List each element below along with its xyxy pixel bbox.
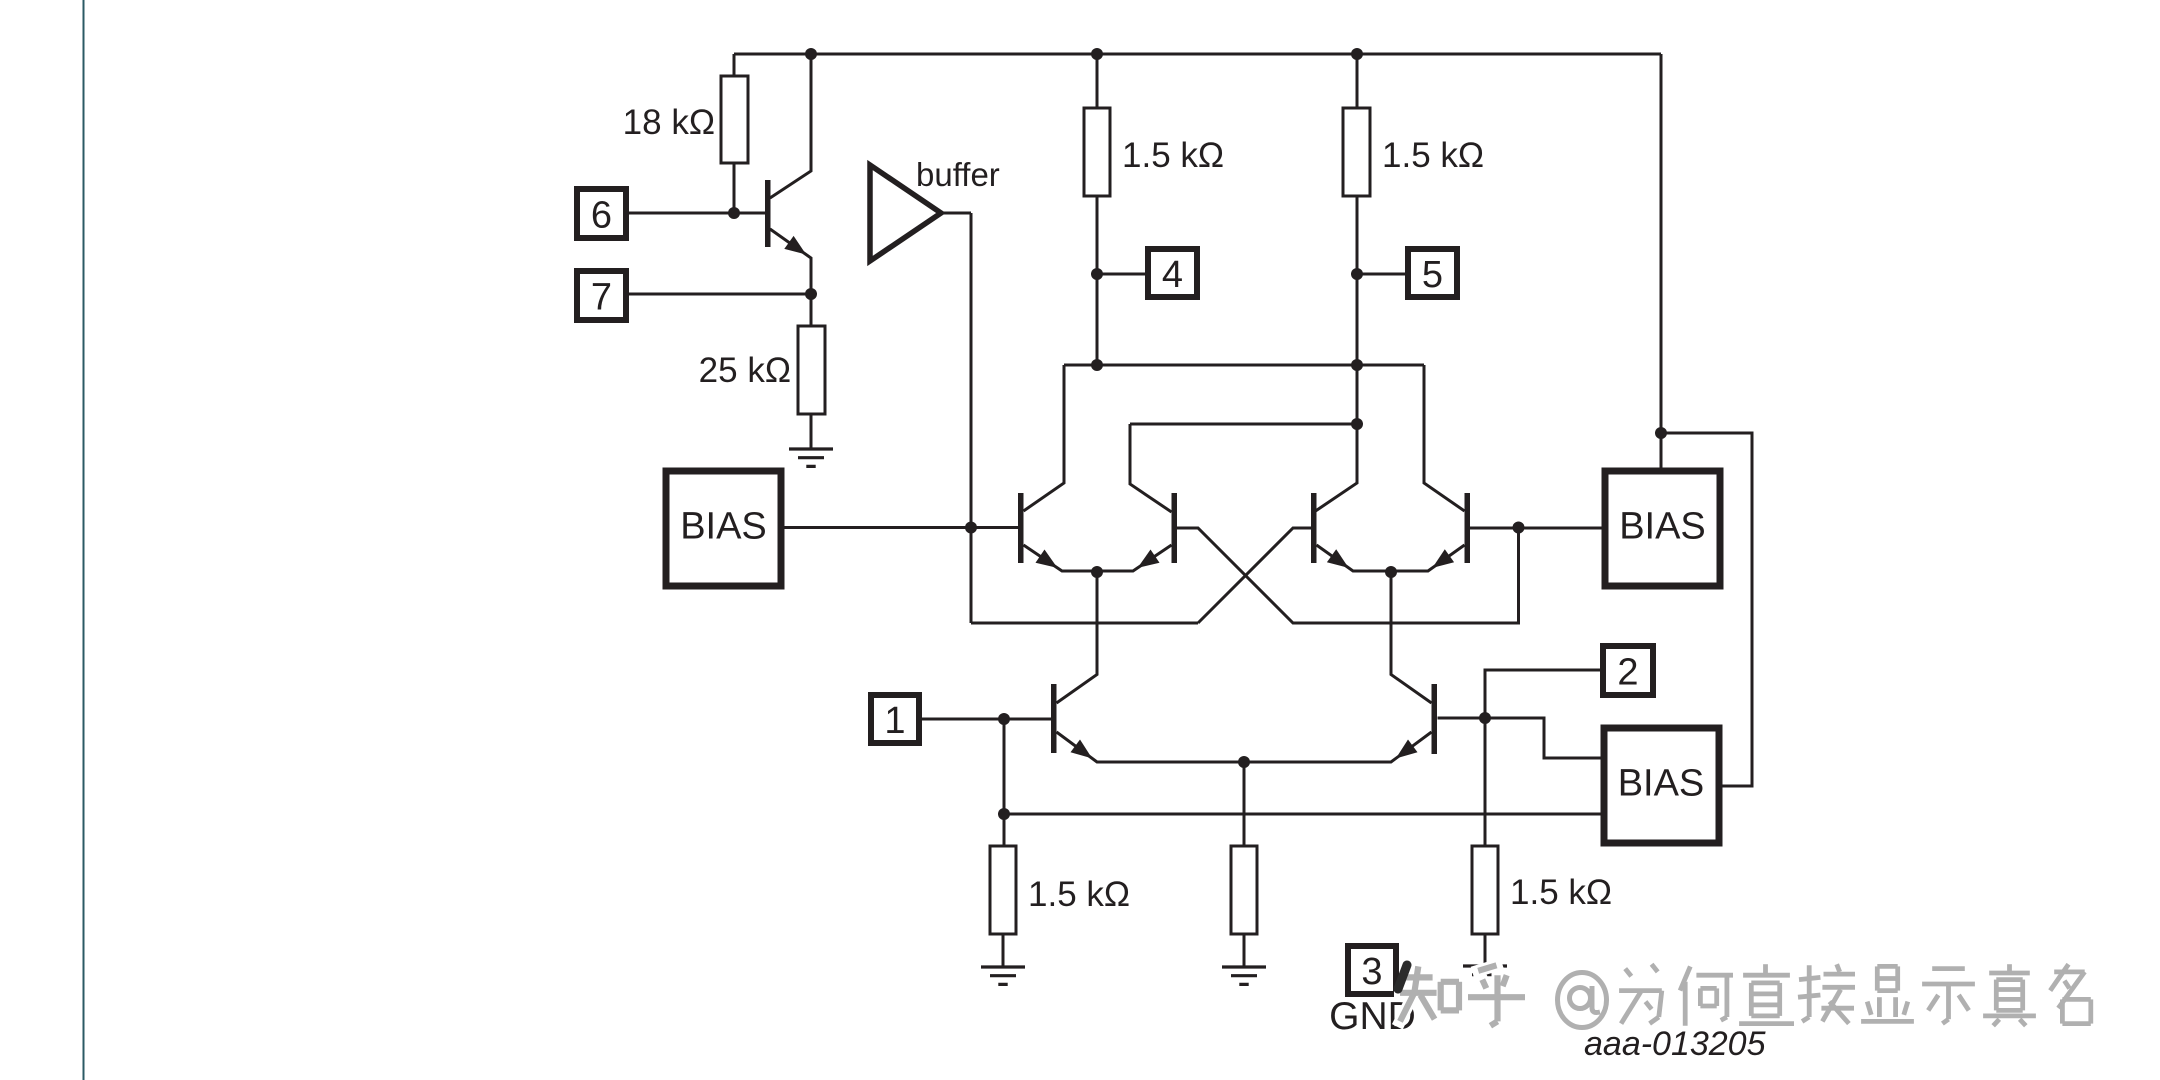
svg-text:1.5 kΩ: 1.5 kΩ (1382, 136, 1484, 175)
svg-text:3: 3 (1361, 951, 1382, 993)
svg-text:2: 2 (1617, 652, 1638, 694)
svg-text:1: 1 (884, 700, 905, 742)
svg-text:5: 5 (1422, 254, 1443, 296)
svg-text:BIAS: BIAS (1619, 506, 1706, 548)
svg-text:BIAS: BIAS (1618, 763, 1705, 805)
svg-text:1.5 kΩ: 1.5 kΩ (1028, 875, 1130, 914)
svg-text:7: 7 (591, 277, 612, 319)
svg-text:4: 4 (1162, 254, 1183, 296)
svg-text:25 kΩ: 25 kΩ (699, 351, 791, 390)
svg-text:buffer: buffer (916, 156, 1000, 193)
svg-text:1.5 kΩ: 1.5 kΩ (1510, 873, 1612, 912)
svg-text:18 kΩ: 18 kΩ (623, 103, 715, 142)
svg-text:aaa-013205: aaa-013205 (1584, 1025, 1766, 1063)
svg-text:BIAS: BIAS (680, 506, 767, 548)
svg-text:6: 6 (591, 195, 612, 237)
svg-text:1.5 kΩ: 1.5 kΩ (1122, 136, 1224, 175)
